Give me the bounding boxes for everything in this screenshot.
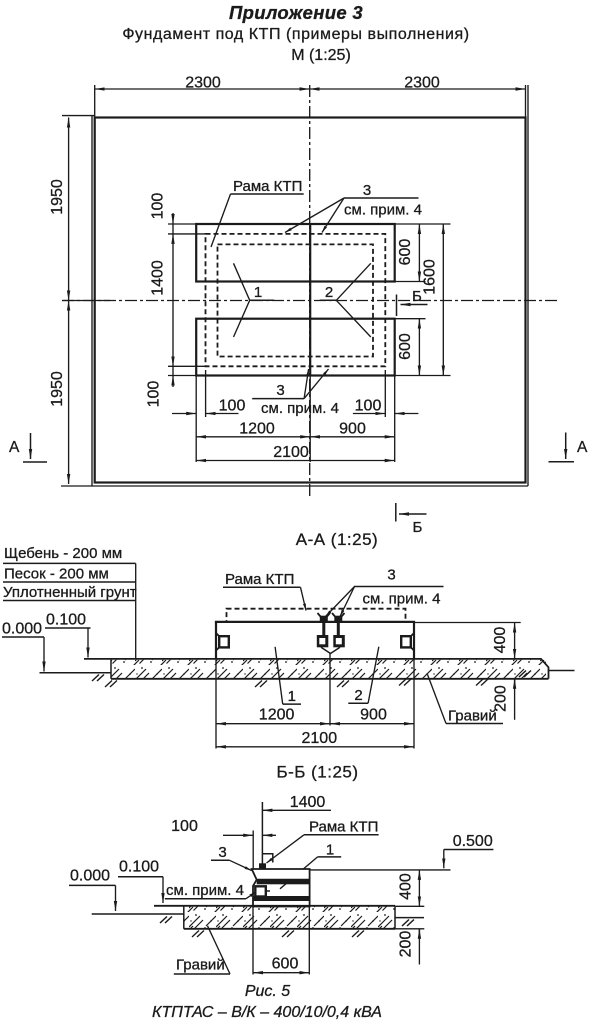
dim 1200 plan (196, 436, 310, 438)
svg-text:400: 400 (398, 873, 415, 900)
svg-text:А-А (1:25): А-А (1:25) (296, 530, 378, 549)
svg-text:2100: 2100 (302, 730, 338, 747)
axis vertical B-B (261, 802, 263, 864)
svg-text:3: 3 (363, 182, 371, 199)
svg-text:см. прим. 4: см. прим. 4 (363, 591, 441, 608)
svg-text:600: 600 (272, 956, 299, 973)
svg-text:2300: 2300 (185, 75, 221, 92)
slab top line A-A (215, 621, 415, 623)
svg-text:200: 200 (398, 931, 415, 958)
right dims ext lines (395, 224, 451, 376)
svg-text:0.000: 0.000 (70, 868, 110, 885)
dim 1950 top segment (68, 118, 70, 301)
svg-text:А: А (9, 439, 20, 456)
svg-text:1400: 1400 (290, 794, 326, 811)
svg-text:100: 100 (146, 381, 163, 408)
svg-text:1950: 1950 (49, 179, 66, 215)
dim 1950 bottom segment (68, 301, 70, 485)
joint converging lines below anchors (321, 647, 340, 653)
dim 2100 A-A (216, 746, 414, 748)
slab right end channel (413, 622, 415, 660)
svg-text:400: 400 (492, 627, 509, 654)
dim 600 top (418, 224, 420, 282)
section mark B bottom (395, 503, 397, 522)
svg-text:2300: 2300 (404, 75, 440, 92)
soil tick left A-A (92, 675, 104, 682)
svg-text:2: 2 (325, 284, 333, 301)
svg-text:100: 100 (355, 398, 382, 415)
anchor notch B-B (255, 886, 265, 896)
svg-text:100: 100 (219, 398, 246, 415)
svg-text:1: 1 (254, 284, 262, 301)
dim 400 B-B (418, 870, 420, 906)
svg-text:Гравий: Гравий (176, 957, 225, 974)
svg-text:900: 900 (339, 421, 366, 438)
svg-text:0.000: 0.000 (2, 621, 42, 638)
KTP frame inner dashed rect (218, 244, 374, 356)
soil tick right B-B (402, 920, 414, 927)
soil tick right A-A (519, 671, 531, 678)
KTP frame outer dashed rect (206, 234, 386, 366)
dim ext lines below A-A (216, 654, 414, 749)
svg-text:3: 3 (387, 567, 395, 584)
svg-text:1: 1 (326, 842, 334, 859)
svg-text:см. прим. 4: см. прим. 4 (166, 882, 244, 899)
gravel band outline B-B (154, 905, 395, 907)
natural ground line left A-A (40, 672, 112, 674)
dim 100 bottom-left arrow (172, 376, 174, 388)
soil ticks below band A-A (105, 681, 117, 688)
dim 100 bottom left pair (172, 413, 196, 415)
left chain connector (172, 224, 174, 234)
soil tick left B-B (160, 917, 172, 924)
gravel band B-B hatched (184, 906, 395, 929)
soil ticks below band B-B (192, 931, 204, 938)
dim 200 B-B (418, 929, 420, 939)
gravel band A-A hatched (111, 660, 546, 679)
svg-text:1200: 1200 (259, 707, 295, 724)
svg-text:Б-Б (1:25): Б-Б (1:25) (276, 763, 358, 782)
block body B-B (253, 880, 310, 907)
dim 900 plan (310, 436, 395, 438)
KTP frame dashed rect A-A (227, 609, 406, 622)
dim 900 A-A (330, 723, 414, 725)
svg-text:0.100: 0.100 (119, 859, 159, 876)
svg-text:см. прим. 4: см. прим. 4 (344, 202, 422, 219)
bottom dims ext lines (196, 370, 395, 462)
svg-text:М (1:25): М (1:25) (291, 47, 351, 64)
natural ground right B-B (395, 917, 424, 919)
dim 1200 A-A (216, 723, 330, 725)
svg-text:Щебень - 200 мм: Щебень - 200 мм (4, 545, 122, 562)
svg-text:А: А (577, 439, 588, 456)
band top ext right B-B (395, 905, 424, 907)
svg-text:1: 1 (288, 688, 296, 705)
svg-text:0.500: 0.500 (453, 833, 493, 850)
dim 200 A-A (514, 679, 516, 689)
block band 2 (253, 896, 310, 901)
dim 1400 left (172, 234, 174, 366)
svg-text:Уплотненный грунт: Уплотненный грунт (3, 584, 137, 601)
block ext lines down B-B (252, 907, 254, 975)
plan: site border thick rect (95, 118, 526, 483)
dim 1600 (442, 224, 444, 376)
band bottom ext right B-B (395, 928, 424, 930)
svg-text:1600: 1600 (422, 259, 439, 295)
svg-text:Песок - 200 мм: Песок - 200 мм (4, 566, 109, 583)
slab block bottom thick rect (196, 319, 395, 376)
svg-text:100: 100 (150, 193, 167, 220)
svg-text:Рама КТП: Рама КТП (309, 819, 378, 836)
block band 1 (257, 880, 310, 885)
svg-text:600: 600 (397, 239, 414, 266)
dim 400 A-A ext line (414, 622, 521, 624)
frame corner mark B-B (262, 854, 272, 863)
svg-text:Гравий: Гравий (448, 708, 497, 725)
svg-text:1200: 1200 (239, 421, 275, 438)
svg-text:0.100: 0.100 (46, 612, 86, 629)
block cap (frame channel) B-B (252, 869, 310, 880)
dim 600 bottom (418, 319, 420, 376)
svg-text:см. прим. 4: см. прим. 4 (261, 400, 339, 417)
svg-text:100: 100 (171, 818, 198, 835)
slab left end channel (215, 622, 217, 660)
dim 400 A-A (514, 623, 516, 659)
section mark B right (396, 295, 398, 317)
dim 100 bottom right pair (353, 413, 385, 415)
svg-text:Фундамент под КТП (примеры вып: Фундамент под КТП (примеры выполнения) (122, 26, 469, 43)
svg-text:Б: Б (413, 519, 423, 536)
dim 1400 B-B (262, 809, 331, 811)
dim 2300 right segment (310, 88, 526, 90)
dim 2100 plan (196, 460, 395, 462)
svg-text:1400: 1400 (150, 260, 167, 296)
plan: centerline solid stub at left dim junction (63, 300, 111, 302)
left chain ext lines (168, 224, 206, 376)
gravel band outline A-A (84, 659, 549, 679)
svg-text:Рама КТП: Рама КТП (233, 178, 302, 195)
plan: thin outer companion lines (61, 85, 528, 486)
svg-text:Рис. 5: Рис. 5 (245, 983, 290, 1000)
svg-text:1950: 1950 (49, 371, 66, 407)
slab block top thick rect (196, 224, 395, 282)
svg-text:2: 2 (354, 687, 362, 704)
svg-text:600: 600 (397, 333, 414, 360)
dim 2300 left segment (95, 88, 310, 90)
svg-text:3: 3 (276, 382, 284, 399)
svg-text:3: 3 (218, 844, 226, 861)
natural ground line right A-A (549, 670, 575, 672)
svg-text:900: 900 (360, 707, 387, 724)
dim 600 B-B (253, 972, 309, 974)
svg-text:Приложение 3: Приложение 3 (229, 2, 363, 23)
svg-text:КТПТАС – В/К – 400/10/0,4 кВА: КТПТАС – В/К – 400/10/0,4 кВА (152, 1004, 382, 1021)
cap top ext line B-B (310, 869, 451, 871)
svg-text:Рама КТП: Рама КТП (225, 571, 294, 588)
anchor bolt 1 (320, 616, 328, 622)
dim 2300 ext lines (95, 85, 526, 118)
svg-text:2100: 2100 (273, 444, 309, 461)
anchor block right (333, 635, 345, 647)
layer leader vertical (135, 563, 137, 659)
plan: horizontal centerline dash-dot (62, 300, 558, 302)
anchor bolt 2 (334, 616, 342, 622)
dim 100 top-left arrows (172, 213, 174, 224)
svg-text:Б: Б (412, 288, 422, 305)
plan: vertical centerline dash-dot (309, 85, 311, 497)
natural ground left B-B (92, 913, 184, 915)
bolt on cap B-B (259, 863, 266, 869)
anchor block left (317, 635, 329, 647)
joint line between block 1 and 2 (309, 224, 311, 376)
